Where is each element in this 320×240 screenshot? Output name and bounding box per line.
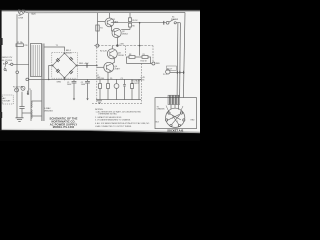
svg-text:1: 1: [172, 118, 173, 120]
socket pin links: [168, 114, 181, 125]
transistor Q4: [104, 62, 114, 72]
capacitor C2: [85, 79, 90, 100]
bottom black bar: [0, 130, 200, 141]
svg-text:R6: R6: [132, 25, 134, 27]
wire Q1-Q2: [112, 26, 115, 31]
wire secondary top to bridge: [44, 47, 64, 52]
AC plug P1: [18, 8, 24, 14]
title block: [50, 116, 78, 129]
svg-text:60 CYCLE: 60 CYCLE: [2, 60, 13, 62]
junction dot: [96, 65, 98, 67]
svg-text:GRN 117V: GRN 117V: [2, 57, 13, 59]
svg-text:OUTLET: OUTLET: [3, 100, 11, 102]
wire drop x180.5: [179, 23, 182, 98]
svg-text:1000: 1000: [81, 84, 85, 86]
svg-text:BLK: BLK: [32, 14, 37, 16]
dashed B+ rail y45.6: [94, 45, 153, 47]
terminal circle bus: [26, 78, 29, 81]
secondary winding A: [31, 90, 42, 121]
wire bridge bottom to bus: [64, 78, 66, 80]
dashed chassis line y103.6: [92, 103, 142, 105]
svg-text:AC: AC: [3, 63, 6, 66]
top bar cover: [0, 0, 200, 9]
svg-text:NOTES:: NOTES:: [95, 109, 104, 111]
svg-text:OTHERWISE NOTED.: OTHERWISE NOTED.: [98, 114, 118, 116]
svg-text:2SB54: 2SB54: [122, 33, 128, 35]
svg-text:PL-1: PL-1: [163, 74, 167, 76]
left dark film edge: [0, 9, 2, 131]
outlet circles: [15, 88, 19, 92]
svg-text:2SD30: 2SD30: [118, 55, 124, 57]
label box dashed: [2, 95, 13, 104]
svg-text:RED +34V: RED +34V: [79, 63, 89, 65]
fuse F1: [16, 44, 24, 47]
pilot lamp PL1: [166, 66, 185, 74]
wire Q to switch y22.8: [111, 22, 167, 24]
arrow chassis mark: [27, 91, 29, 95]
svg-text:RED: RED: [156, 63, 161, 65]
ground bus y99.6: [96, 99, 141, 101]
bridge rectifier BR1 dashed outline: [52, 53, 78, 79]
svg-text:R8: R8: [129, 54, 131, 56]
wire switch to drop: [176, 23, 178, 98]
transistor Q3: [107, 49, 117, 59]
wire Q2 emitter down: [116, 38, 118, 46]
transformer T1 winding hatch: [32, 45, 39, 76]
wire plug to box corner: [24, 12, 28, 13]
wire divider down x139.6: [139, 46, 141, 56]
wire cap to winding: [22, 112, 31, 114]
junction dot rail: [139, 45, 141, 47]
svg-text:D5: D5: [110, 78, 112, 80]
bridge rectifier BR1 diamond: [52, 52, 78, 78]
capacitor C5 line: [21, 92, 23, 107]
svg-text:F1 2A: F1 2A: [17, 41, 23, 44]
svg-text:T1: T1: [29, 89, 31, 91]
wire divider joins: [135, 56, 142, 58]
svg-text:LOAD CONNECTED TO OUTPUT TERMS: LOAD CONNECTED TO OUTPUT TERMS.: [95, 125, 132, 128]
dashed vertical x141.5: [141, 64, 143, 104]
svg-text:CHASSIS: CHASSIS: [157, 108, 166, 111]
wire ground bus y79.4: [27, 78, 97, 80]
ground symbol left: [16, 118, 24, 122]
resistor chain R5 R6: [121, 13, 131, 30]
terminal circle TP: [152, 62, 155, 65]
transformer T1 primary box: [31, 44, 42, 77]
svg-text:GRN: GRN: [57, 81, 62, 83]
svg-text:R1: R1: [100, 28, 102, 30]
connector tick: [86, 63, 88, 68]
svg-text:3. VOLTAGES MEASURED TO CHASSI: 3. VOLTAGES MEASURED TO CHASSIS.: [95, 119, 131, 122]
paper background: [0, 10, 200, 133]
svg-text:2SB77: 2SB77: [115, 68, 121, 70]
svg-text:PRI: PRI: [25, 45, 28, 47]
transistor Q1: [105, 18, 114, 27]
wire interlock y64: [9, 63, 29, 65]
ground symbol: [97, 101, 102, 104]
resistor R8 box: [129, 56, 135, 59]
dashed vertical x153: [152, 46, 154, 62]
wire Q4 emitter to bus: [107, 72, 109, 79]
svg-text:4. ALL VOLTAGES TAKEN WITH A V: 4. ALL VOLTAGES TAKEN WITH A VTVM AT 117…: [95, 122, 150, 125]
resistor R1 box: [96, 25, 99, 31]
wire Q3 collector: [111, 46, 113, 49]
svg-text:ADJUST: ADJUST: [131, 82, 139, 85]
wire bridge output y65.5: [77, 65, 97, 67]
junction dot: [116, 44, 118, 46]
svg-text:+35V: +35V: [119, 44, 124, 46]
transistor Q2: [112, 28, 121, 37]
svg-text:2: 2: [177, 121, 178, 123]
socket circle: [166, 108, 185, 127]
resistor R9 box: [142, 56, 148, 59]
svg-text:LINE: LINE: [19, 17, 24, 19]
svg-text:R9: R9: [143, 54, 145, 56]
socket box: [155, 98, 197, 129]
wire left AC rail x17: [16, 14, 18, 117]
wire bridge left to bus: [49, 66, 53, 80]
svg-text:WINDING: WINDING: [44, 111, 53, 113]
dashed vertical x125.5: [125, 46, 127, 57]
svg-text:R2 2.2K: R2 2.2K: [100, 50, 108, 52]
node circle B+: [96, 44, 99, 47]
wire Q3-Q4: [112, 58, 115, 64]
wire right border down: [183, 13, 185, 98]
wire Q1 collector top: [109, 13, 111, 18]
wire Q1 base left: [98, 21, 106, 23]
terminal circle on rail: [16, 71, 19, 74]
switch S2 contacts: [5, 63, 7, 71]
resistor divider drops: [99, 79, 140, 99]
svg-text:P2 OUTLET: P2 OUTLET: [13, 86, 24, 88]
wire reg bus y79.4: [97, 78, 141, 80]
capacitor C1: [72, 79, 77, 100]
svg-text:2000: 2000: [67, 84, 71, 86]
wire top border: [29, 12, 185, 14]
terminal circle: [11, 63, 13, 65]
svg-text:R10 5K: R10 5K: [141, 61, 148, 63]
svg-text:POWER: POWER: [171, 19, 179, 21]
wire left rail x28.7: [28, 13, 30, 95]
svg-text:C3: C3: [121, 78, 123, 80]
wire feedback drop x139.6: [139, 23, 141, 46]
dashed vertical x96.8: [96, 47, 98, 104]
svg-text:PILOT: PILOT: [167, 68, 173, 70]
svg-text:2SB56: 2SB56: [113, 21, 119, 23]
svg-text:SOCKET A-B: SOCKET A-B: [167, 128, 183, 132]
svg-text:REG: REG: [140, 79, 145, 81]
svg-text:2. CAPACITOR VALUES IN UF.: 2. CAPACITOR VALUES IN UF.: [95, 116, 122, 119]
power switch S1: [166, 19, 176, 24]
svg-text:R5 1K: R5 1K: [132, 20, 138, 22]
junction dots bus: [48, 79, 50, 81]
top black bar: [0, 0, 200, 10]
wire TP line y63.5: [127, 63, 152, 65]
wire collector feed x97.5: [97, 13, 99, 44]
transformer core shading: [42, 44, 45, 122]
connector tick before switch: [163, 21, 165, 25]
wire Q4 base: [97, 66, 104, 68]
socket pins: [166, 112, 185, 127]
svg-text:D1-D4: D1-D4: [66, 52, 71, 54]
cable clamp hatch: [168, 95, 180, 104]
socket wires: [171, 105, 179, 110]
svg-text:MODEL PS-1202: MODEL PS-1202: [53, 125, 75, 129]
notes block: [95, 109, 150, 128]
